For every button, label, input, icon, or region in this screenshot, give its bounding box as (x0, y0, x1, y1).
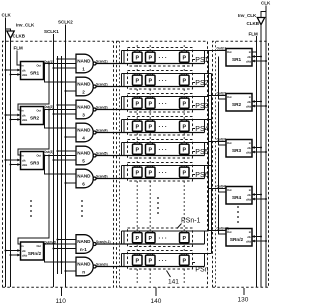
label Out(4) (right) (217, 185, 226, 189)
wire row left stub 2 (123, 143, 125, 156)
wire SCLK2 bus (65, 25, 67, 288)
svg-text:in: in (21, 108, 24, 112)
wire scan line Scan(2) (96, 86, 204, 88)
wire bus B stub NAND 2 (61, 81, 77, 83)
label PS4 (193, 126, 209, 133)
svg-text:110: 110 (56, 298, 67, 304)
label PS2 (193, 80, 209, 87)
label 141 (167, 271, 180, 286)
wire row top line PSn-1 (122, 230, 209, 232)
label FLM (right) (249, 31, 258, 36)
svg-text:clkb: clkb (22, 118, 28, 122)
pixel P (PSn col 2) (146, 254, 156, 267)
shift register SR1 (21, 62, 44, 80)
svg-text:130: 130 (238, 297, 249, 304)
shift register SRn/2 (21, 242, 44, 260)
wire clkb pin SR1 (252, 60, 267, 63)
label 140 (151, 288, 162, 304)
wire row top line PSn (122, 253, 212, 255)
wire row left stub 2 (123, 120, 125, 133)
wire SRn/2 out to NANDn-1 input (44, 243, 77, 245)
wire row top line PS6 (122, 165, 212, 167)
shift register SR4 (right) (226, 187, 252, 205)
svg-text:···: ··· (159, 148, 169, 154)
svg-text:P: P (136, 171, 140, 177)
ellipsis pixels PS5 (159, 148, 169, 154)
pixel P (PS3 col 1) (133, 97, 143, 110)
wire scan line Scan(n) (96, 266, 204, 268)
svg-text:P: P (183, 56, 187, 62)
svg-text:in: in (249, 95, 252, 99)
pixel P (PS1 col 3) (180, 51, 190, 64)
dashed block 130 (right driver) (213, 41, 269, 287)
label Out(3) (right) (217, 138, 226, 142)
svg-text:clkb: clkb (246, 59, 252, 63)
pixel P (PS5 col 2) (146, 143, 156, 156)
wire row right stub (204, 74, 206, 87)
pixel row box PS6 (128, 163, 193, 182)
ellipsis pixels PS3 (159, 102, 169, 108)
svg-text:clkb: clkb (246, 150, 252, 154)
pixel P (PS5 col 3) (180, 143, 190, 156)
wire row left stub 1 (121, 231, 123, 244)
label Scan(n-1) (96, 240, 111, 244)
pixel row box PS5 (128, 140, 193, 159)
svg-text:clk: clk (22, 68, 26, 72)
svg-text:PS6: PS6 (195, 172, 208, 179)
wire SCLK1 to NAND 3 (53, 113, 77, 115)
wire clk pin SRn/2 (5, 249, 21, 252)
pixel P (PSn-1 col 2) (146, 231, 156, 244)
label CLK (top right) (261, 1, 271, 6)
svg-text:Scan(1): Scan(1) (96, 59, 108, 63)
shift register SR3 (right) (226, 140, 252, 158)
wire bus A stub NAND n-1 (57, 239, 77, 241)
wire row left stub 1 (121, 51, 123, 64)
pixel P (PS1 col 2) (146, 51, 156, 64)
svg-text:CLKB: CLKB (13, 34, 26, 39)
wire SR2 out to NAND3 input (44, 109, 77, 111)
svg-text:clk: clk (247, 235, 251, 239)
svg-text:SRn/2: SRn/2 (28, 251, 42, 256)
svg-text:SR1: SR1 (232, 57, 242, 62)
wire chain SR2 to SR3 (18, 110, 49, 156)
svg-text:P: P (136, 125, 140, 131)
label CLK (top left) (2, 13, 12, 18)
wire clkb pin SRn/2 (252, 240, 267, 243)
pixel P (PS2 col 2) (146, 74, 156, 87)
NAND gate 5 (76, 146, 96, 165)
svg-text:clk: clk (247, 146, 251, 150)
NAND gate n-1 (76, 235, 96, 254)
wire clk pin SR1 (252, 55, 262, 58)
label Scan(6) (96, 174, 108, 178)
svg-text:···: ··· (159, 259, 169, 265)
wire row top line PS4 (122, 119, 212, 121)
svg-text:Scan(6): Scan(6) (96, 174, 108, 178)
ellipsis pixels PS2 (159, 79, 169, 85)
wire chain into SRn/2 (219, 195, 227, 235)
svg-text:NAND: NAND (77, 174, 91, 179)
svg-text:Out(3): Out(3) (44, 150, 53, 154)
svg-text:Scan(4): Scan(4) (96, 128, 108, 132)
wire clk pin SR3 (252, 146, 262, 149)
wire row left stub 1 (121, 97, 123, 110)
inverter (left clock) (7, 31, 14, 38)
pixel P (PS3 col 2) (146, 97, 156, 110)
svg-text:2: 2 (82, 89, 85, 94)
svg-text:···: ··· (159, 125, 169, 131)
wire SCLK2 to NAND 4 (65, 136, 77, 138)
label SCLK2 (58, 20, 73, 25)
ellipsis pixel array middle (157, 197, 159, 214)
svg-text:Scan(5): Scan(5) (96, 151, 108, 155)
wire scan line Scan(4) (96, 132, 204, 134)
shift register SRn/2 (right) (226, 229, 252, 247)
svg-text:Out: Out (227, 95, 232, 99)
label Scan(n) (96, 262, 108, 266)
wire scan line Scan(3) (96, 109, 204, 111)
wire SR3 out to NAND5 input (44, 155, 77, 157)
shift register SR1 (right) (226, 49, 252, 67)
svg-text:n: n (82, 269, 85, 274)
wire chain into SR4 (219, 148, 227, 193)
NAND gate 6 (76, 169, 96, 188)
svg-text:SRn/2: SRn/2 (230, 237, 244, 242)
wire row left stub 2 (123, 166, 125, 179)
svg-text:SR2: SR2 (30, 116, 40, 121)
svg-text:SR4: SR4 (232, 195, 242, 200)
svg-text:clk: clk (247, 100, 251, 104)
svg-text:PS2: PS2 (195, 80, 208, 87)
label PS1 (193, 57, 209, 64)
wire SCLK1 bus (53, 34, 55, 287)
NAND gate 4 (76, 123, 96, 142)
wire scan line Scan(1) (96, 63, 204, 65)
wire clkb pin SR3 (252, 151, 267, 154)
wire clk pin SR4 (252, 193, 262, 196)
wire row top line PS2 (122, 73, 212, 75)
svg-text:P: P (149, 236, 153, 242)
svg-text:NAND: NAND (77, 239, 91, 244)
label 130 (238, 288, 249, 304)
svg-text:Out(2): Out(2) (44, 105, 53, 109)
wire chain SR1 to SR2 (18, 64, 49, 111)
label Out(2) (right) (217, 92, 226, 96)
pixel row box PS4 (128, 117, 193, 136)
svg-text:PSn-1: PSn-1 (181, 218, 201, 225)
wire row left stub 1 (121, 143, 123, 156)
svg-text:clkb: clkb (22, 253, 28, 257)
dashed block 140 (pixel array) (117, 41, 208, 287)
pixel P (PS1 col 1) (133, 51, 143, 64)
svg-text:P: P (149, 125, 153, 131)
pixel P (PS4 col 3) (180, 120, 190, 133)
svg-text:PS5: PS5 (195, 149, 208, 156)
svg-text:3: 3 (82, 112, 85, 117)
wire inverter branch (6, 29, 11, 31)
wire out2 branch to NAND4 (45, 110, 77, 129)
svg-text:···: ··· (159, 56, 169, 62)
ellipsis left SR column (30, 200, 32, 217)
pixel row box PS3 (128, 94, 193, 113)
svg-text:P: P (149, 148, 153, 154)
svg-text:NAND: NAND (77, 262, 91, 267)
svg-text:clkb: clkb (246, 239, 252, 243)
wire chain into SR2 (219, 57, 227, 100)
ellipsis pixels PS4 (159, 125, 169, 131)
shift register SR2 (21, 107, 44, 125)
wire chain into SR3 (219, 102, 227, 146)
pixel P (PS4 col 2) (146, 120, 156, 133)
svg-text:Scan(2): Scan(2) (96, 82, 108, 86)
svg-text:in: in (249, 50, 252, 54)
label Inv_CLK (left) (16, 23, 35, 28)
label PS5 (193, 149, 209, 156)
wire out3 branch to NAND6 (45, 156, 77, 175)
wire row left stub 2 (123, 231, 125, 244)
wire scan line Scan(n-1) (96, 243, 204, 245)
ellipsis pixels PS1 (159, 56, 169, 62)
svg-text:···: ··· (159, 102, 169, 108)
svg-text:in: in (21, 63, 24, 67)
svg-text:P: P (136, 236, 140, 242)
wire row right stub (204, 254, 206, 267)
svg-text:PS1: PS1 (195, 57, 208, 64)
svg-text:P: P (136, 148, 140, 154)
wire row left stub 1 (121, 166, 123, 179)
wire clk pin SR1 (5, 69, 21, 72)
label Inv_CLK (right) (238, 13, 257, 18)
svg-text:P: P (183, 102, 187, 108)
svg-text:Scan(3): Scan(3) (96, 105, 108, 109)
wire SR2 out to row line (209, 95, 227, 97)
wire row top line PS1 (122, 50, 209, 52)
wire row top line PS5 (122, 142, 209, 144)
wire CLKB bus right (260, 25, 262, 287)
svg-text:clk: clk (247, 55, 251, 59)
pixel row box PS1 (128, 48, 193, 67)
NAND gate 3 (76, 100, 96, 119)
wire SR1 out to NAND1 input (44, 63, 77, 65)
wire SCLK2 to NAND 6 (65, 182, 77, 184)
pixel P (PSn col 3) (180, 254, 190, 267)
svg-text:SR3: SR3 (30, 161, 40, 166)
dashed data line col 1 (136, 45, 138, 283)
label Out(n/2) (right) (217, 227, 229, 231)
wire SCLK2 to NAND n (65, 270, 77, 272)
wire clkb pin SR3 (10, 163, 21, 166)
wire bus A stub NAND 3 (57, 104, 77, 106)
label Scan(1) (96, 59, 108, 63)
label Scan(4) (96, 128, 108, 132)
svg-text:CLK: CLK (2, 13, 12, 18)
ellipsis pixels PS6 (159, 171, 169, 177)
svg-text:Inv_CLK: Inv_CLK (238, 13, 257, 18)
svg-text:···: ··· (159, 171, 169, 177)
svg-text:clk: clk (22, 158, 26, 162)
wire bus B stub NAND n (61, 261, 77, 263)
wire CLK bus left (5, 18, 7, 288)
wire row right stub (204, 120, 206, 133)
wire bus A stub NAND 1 (57, 58, 77, 60)
wire row left stub 1 (121, 120, 123, 133)
NAND gate 2 (76, 77, 96, 96)
svg-text:Scan(n): Scan(n) (96, 262, 108, 266)
dashed internal vertical right block (215, 41, 217, 287)
junction dots SR3 out (44, 155, 51, 157)
svg-text:P: P (183, 79, 187, 85)
pixel P (PS3 col 3) (180, 97, 190, 110)
svg-text:NAND: NAND (77, 105, 91, 110)
wire right driver vertical B (211, 74, 213, 254)
svg-text:Inv_CLK: Inv_CLK (16, 23, 35, 28)
svg-text:PSn: PSn (195, 267, 208, 274)
label SCLK1 (44, 29, 59, 34)
svg-text:P: P (183, 236, 187, 242)
wire FLM to SR1 in (17, 51, 21, 66)
label Out(n/2) (44, 241, 56, 245)
wire SCLK1 to NAND 1 (53, 67, 77, 69)
junction dots SRn/2 out (44, 243, 46, 245)
pixel P (PS6 col 1) (133, 166, 143, 179)
pixel P (PS6 col 2) (146, 166, 156, 179)
wire clk pin SR2 (5, 114, 21, 117)
svg-text:6: 6 (82, 181, 85, 186)
label Out(3) (44, 150, 53, 154)
svg-text:in: in (21, 153, 24, 157)
wire row left stub 2 (123, 97, 125, 110)
wire scan line Scan(5) (96, 155, 204, 157)
svg-text:P: P (136, 56, 140, 62)
wire SCLK1 to NAND 5 (53, 159, 77, 161)
label Out(1) (44, 60, 53, 64)
wire out1 branch to NAND2 (45, 64, 77, 83)
wire row right stub (204, 231, 206, 244)
svg-text:P: P (136, 259, 140, 265)
pixel P (PS2 col 3) (180, 74, 190, 87)
svg-text:FLM: FLM (14, 46, 23, 51)
shift register SR3 (21, 152, 44, 170)
label PSn-1 (177, 218, 201, 229)
label PS3 (193, 103, 209, 110)
wire inverter branch right (261, 12, 266, 18)
pixel P (PSn-1 col 3) (180, 231, 190, 244)
svg-text:P: P (149, 102, 153, 108)
label Out(1) (right) (217, 47, 226, 51)
pixel P (PS4 col 1) (133, 120, 143, 133)
pixel P (PSn col 1) (133, 254, 143, 267)
wire clkb pin SR2 (252, 105, 267, 108)
wire clk pin SR2 (252, 100, 262, 103)
wire SR1 out to row line (209, 50, 227, 52)
wire SCLK1 to NAND n-1 (53, 248, 77, 250)
label PSn (193, 263, 209, 274)
ellipsis NAND column (81, 200, 83, 217)
wire row right stub (204, 166, 206, 179)
svg-text:CLKB: CLKB (247, 21, 260, 26)
svg-text:P: P (136, 102, 140, 108)
svg-text:P: P (183, 148, 187, 154)
svg-text:NAND: NAND (77, 128, 91, 133)
svg-text:CLK: CLK (261, 1, 271, 6)
wire row left stub 2 (123, 51, 125, 64)
svg-text:P: P (149, 259, 153, 265)
wire scan line Scan(6) (96, 178, 204, 180)
wire bus B stub NAND 4 (61, 127, 77, 129)
svg-text:NAND: NAND (77, 151, 91, 156)
svg-text:in: in (21, 244, 24, 248)
svg-text:5: 5 (82, 158, 85, 163)
svg-text:FLM: FLM (249, 31, 258, 36)
svg-text:clk: clk (247, 193, 251, 197)
svg-text:P: P (149, 171, 153, 177)
dashed data line col 2 (149, 45, 151, 283)
svg-text:clkb: clkb (246, 197, 252, 201)
svg-text:Out: Out (227, 188, 232, 192)
label Scan(3) (96, 105, 108, 109)
wire right driver vertical A (208, 51, 210, 232)
pixel P (PS6 col 3) (180, 166, 190, 179)
svg-text:141: 141 (168, 279, 179, 286)
wire bus A stub NAND 5 (57, 150, 77, 152)
label Scan(2) (96, 82, 108, 86)
wire row left stub 2 (123, 254, 125, 267)
wire clkb pin SR1 (10, 73, 21, 76)
dashed data line col 3 (183, 45, 185, 283)
svg-text:140: 140 (151, 298, 162, 304)
wire row right stub (204, 97, 206, 110)
svg-text:P: P (149, 56, 153, 62)
svg-text:P: P (183, 171, 187, 177)
svg-text:Out: Out (37, 244, 42, 248)
wire row right stub (204, 143, 206, 156)
label Out(2) (44, 105, 53, 109)
pixel P (PSn-1 col 1) (133, 231, 143, 244)
wire bus B (out routing) (61, 56, 63, 274)
wire row right stub (204, 51, 206, 64)
label FLM (left) (14, 46, 23, 51)
label Scan(5) (96, 151, 108, 155)
svg-text:SR3: SR3 (232, 148, 242, 153)
svg-text:P: P (183, 125, 187, 131)
wire row top line PS3 (122, 96, 209, 98)
svg-text:NAND: NAND (77, 82, 91, 87)
junction dots SR1 out (44, 63, 51, 65)
svg-text:n-1: n-1 (80, 247, 87, 252)
wire outn/2 branch to NANDn (45, 244, 77, 262)
dashed internal vertical left (119, 41, 121, 287)
wire row left stub 1 (121, 74, 123, 87)
wire bus A (out routing) (57, 56, 59, 274)
wire CLKB bus left (10, 38, 12, 287)
svg-text:clk: clk (22, 249, 26, 253)
wire SR3 out to row line (209, 141, 227, 143)
svg-text:4: 4 (82, 135, 85, 140)
pixel P (PS5 col 1) (133, 143, 143, 156)
wire clkb pin SR2 (10, 118, 21, 121)
wire SCLK2 to NAND 2 (65, 90, 77, 92)
svg-text:P: P (136, 79, 140, 85)
svg-text:PS4: PS4 (195, 126, 208, 133)
svg-text:···: ··· (159, 236, 169, 242)
svg-text:PS3: PS3 (195, 103, 208, 110)
wire bus B stub NAND 6 (61, 173, 77, 175)
svg-text:in: in (249, 230, 252, 234)
wire SRn/2 out to row line (209, 230, 227, 232)
svg-text:clk: clk (22, 113, 26, 117)
wire row left stub 2 (123, 74, 125, 87)
